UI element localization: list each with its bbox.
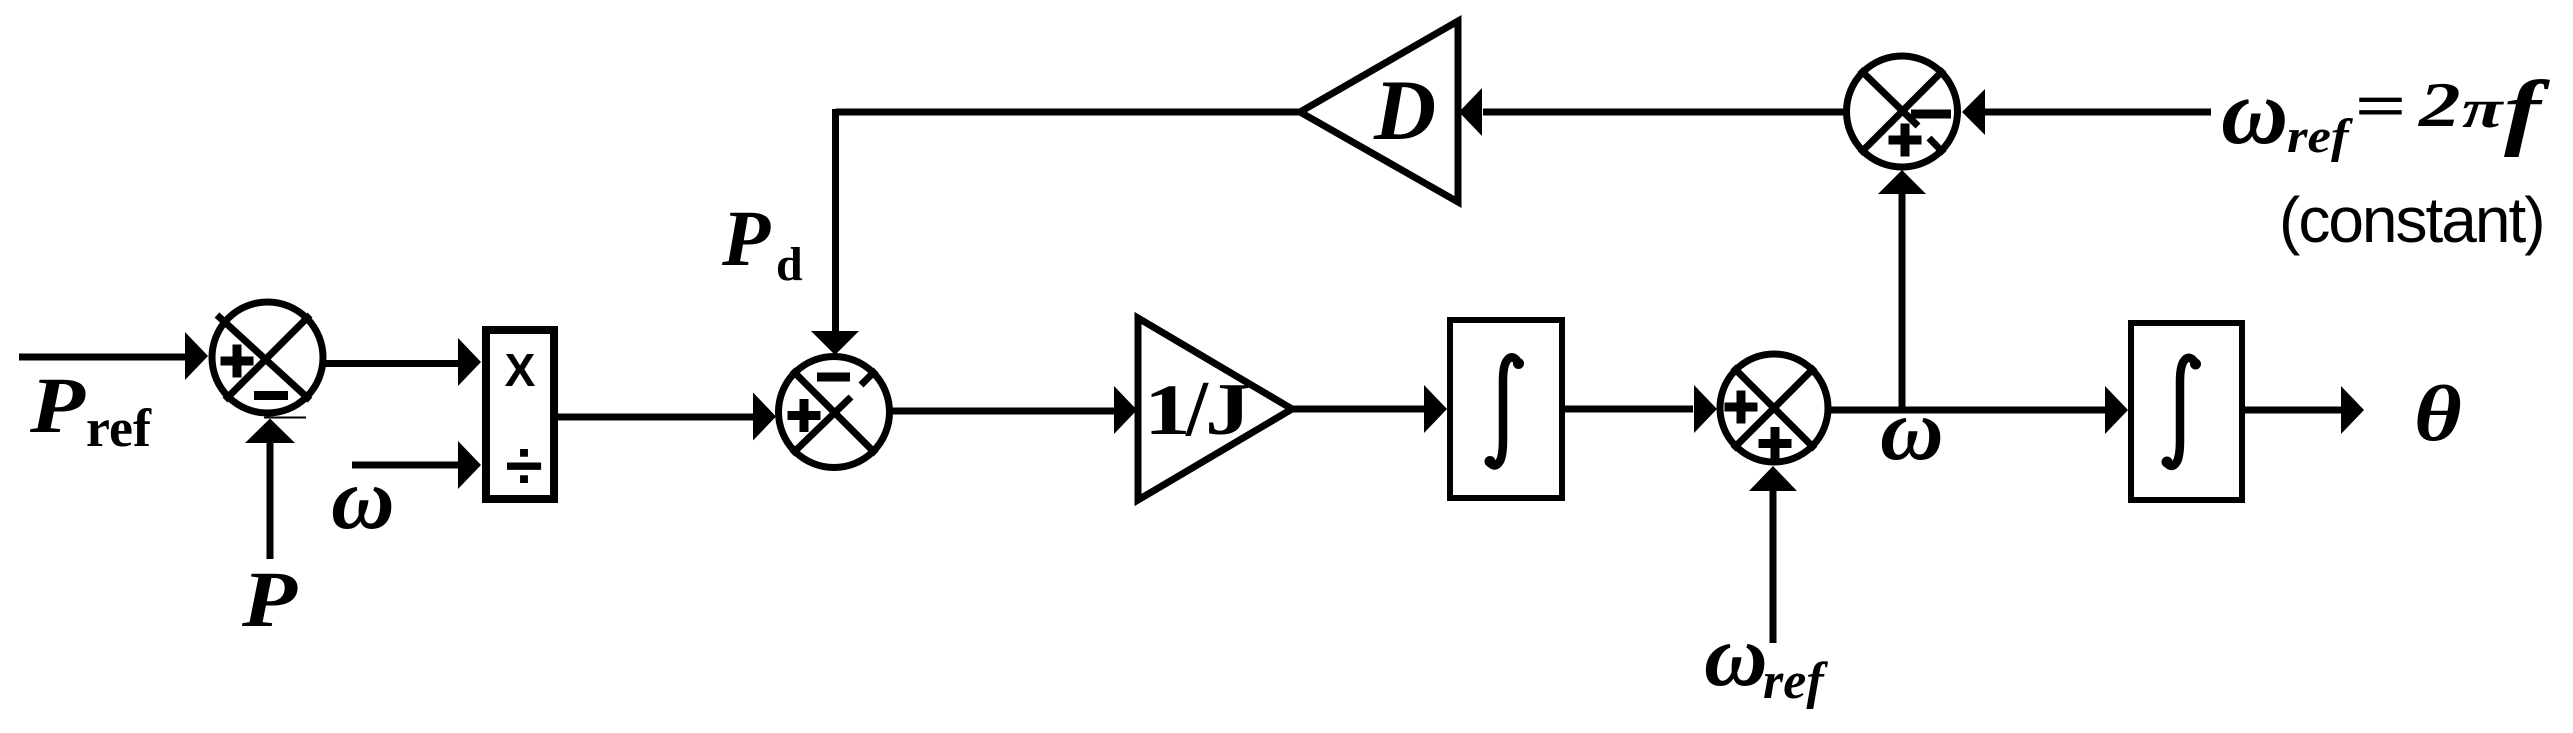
integrator 1 (1450, 320, 1562, 498)
wire integrator 1 to S3 (1565, 406, 1693, 413)
wire omega-ref input to S3 (1770, 491, 1777, 643)
svg-text:÷: ÷ (505, 428, 542, 504)
svg-text:ref: ref (1763, 653, 1828, 710)
label Pd (721, 196, 803, 291)
wire Pref input (19, 354, 187, 361)
svg-text:X: X (505, 344, 536, 396)
label (constant) (2279, 184, 2544, 256)
wire omega input (352, 462, 459, 469)
wire P input (267, 443, 274, 559)
svg-text:P: P (241, 557, 298, 644)
svg-text:P: P (721, 196, 771, 283)
wire node to S4 (vertical) (1899, 194, 1906, 410)
svg-text:ω: ω (2221, 61, 2288, 164)
svg-text:2: 2 (2418, 70, 2461, 141)
wire S1 to multiplier (323, 360, 459, 367)
label P (241, 557, 298, 644)
label omega (node) (1880, 382, 1944, 479)
svg-text:π: π (2462, 79, 2505, 140)
label omega (divider input) (331, 451, 395, 548)
summing junction S1 (212, 302, 323, 418)
svg-text:J: J (1205, 369, 1251, 451)
gain D (1300, 21, 1458, 202)
wire feedback D output to S2 (horizontal) (836, 109, 1301, 116)
wire S2 to 1/J (890, 408, 1115, 415)
svg-text:1: 1 (1144, 371, 1191, 450)
svg-text:D: D (1373, 62, 1436, 158)
label theta (2414, 369, 2462, 458)
integrator 2 (2131, 323, 2242, 500)
svg-text:ref: ref (86, 398, 152, 458)
label Pref (29, 363, 152, 458)
wire constant input to S4 (1985, 109, 2211, 116)
svg-text:θ: θ (2414, 369, 2462, 458)
svg-text:(constant): (constant) (2279, 184, 2544, 256)
wire multiplier to S2 (558, 414, 755, 421)
svg-text:=: = (2354, 71, 2406, 141)
label omega-ref (bottom) (1704, 608, 1828, 710)
svg-text:d: d (776, 238, 803, 291)
label omega-ref = 2pi-f (2221, 61, 2550, 164)
wire 1/J to integrator 1 (1292, 406, 1426, 413)
svg-text:ω: ω (1880, 382, 1944, 479)
wire integrator 2 output to theta (2245, 407, 2342, 414)
svg-text:ω: ω (331, 451, 395, 548)
wire feedback vertical drop (832, 109, 839, 333)
wire S4 to D (1483, 109, 1845, 116)
svg-text:P: P (29, 363, 86, 450)
gain 1/J (1138, 318, 1292, 500)
summing junction S3 (1720, 354, 1828, 462)
svg-text:ref: ref (2287, 109, 2353, 162)
wire S3 to integrator 2 with node (1828, 407, 2107, 414)
summing junction S4 (1847, 56, 1958, 167)
svg-text:ω: ω (1704, 608, 1768, 705)
summing junction S2 (779, 357, 890, 468)
block multiplier-divider X / div (486, 330, 554, 504)
